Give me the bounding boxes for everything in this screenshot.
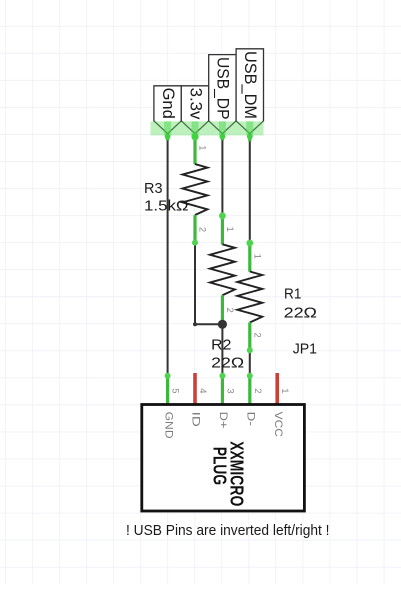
svg-text:R3: R3 (144, 180, 163, 197)
node USB_DM pin strip (246, 121, 253, 135)
svg-text:GND: GND (162, 412, 174, 439)
pin 4 ID (unconnected) (193, 373, 197, 405)
net highlight band (151, 121, 264, 135)
pin 3 D+ (221, 376, 224, 405)
svg-text:5: 5 (170, 388, 181, 393)
svg-text:R2: R2 (211, 337, 231, 354)
wire D- lower (249, 351, 251, 375)
pin 5 GND (166, 376, 169, 405)
node Gnd pin strip (164, 121, 171, 135)
pin 1 VCC (unconnected) (275, 373, 279, 405)
junction corner (193, 322, 197, 326)
svg-text:ID: ID (190, 412, 202, 427)
resistor R2 (210, 212, 235, 324)
svg-text:Gnd: Gnd (159, 88, 178, 119)
label flag USB_DP (209, 55, 236, 134)
junction node D+ (218, 320, 227, 329)
svg-text:JP1: JP1 (293, 341, 317, 358)
svg-text:R1: R1 (284, 286, 301, 303)
wire USB_DM upper (249, 134, 251, 243)
svg-text:3: 3 (224, 388, 235, 393)
svg-text:1.5kΩ: 1.5kΩ (144, 198, 189, 215)
wire USB_DP upper (221, 134, 223, 216)
pin 2 D- (248, 376, 251, 405)
wire Gnd vertical (167, 134, 169, 376)
wire D+ lower (221, 324, 223, 375)
svg-text:D+: D+ (217, 412, 229, 429)
svg-text:22Ω: 22Ω (211, 355, 244, 372)
svg-text:4: 4 (197, 388, 208, 393)
svg-text:2: 2 (252, 333, 263, 338)
node USB_DP pin strip (219, 121, 226, 135)
svg-text:1: 1 (252, 254, 263, 259)
label flag Gnd (154, 86, 181, 134)
wire 3.3v to D+ junction (195, 244, 222, 324)
svg-text:2: 2 (252, 388, 263, 393)
svg-text:D-: D- (245, 412, 257, 427)
body outline (142, 405, 305, 512)
svg-text:2: 2 (197, 227, 208, 232)
svg-text:1: 1 (224, 227, 235, 232)
svg-text:22Ω: 22Ω (284, 305, 317, 322)
svg-text:1: 1 (279, 388, 290, 393)
node Gnd apex stub (166, 134, 169, 141)
node USB_DP apex stub (221, 134, 224, 141)
node USB_DM apex stub (248, 134, 251, 142)
svg-text:USB_DP: USB_DP (214, 57, 233, 120)
resistor R1 (237, 240, 262, 354)
connector JP1 (142, 373, 305, 511)
svg-text:3.3v: 3.3v (186, 88, 205, 120)
node 3.3v pin strip (192, 121, 199, 135)
svg-text:USB_DM: USB_DM (241, 51, 260, 119)
svg-text:VCC: VCC (272, 412, 284, 437)
label flag USB_DM (236, 49, 263, 134)
resistor R3 (183, 133, 208, 245)
svg-text:PLUG: PLUG (209, 447, 229, 485)
label flag 3.3v (181, 86, 208, 134)
svg-text:! USB Pins are inverted left/r: ! USB Pins are inverted left/right ! (126, 522, 330, 539)
svg-text:2: 2 (224, 308, 235, 313)
svg-text:1: 1 (197, 145, 208, 150)
